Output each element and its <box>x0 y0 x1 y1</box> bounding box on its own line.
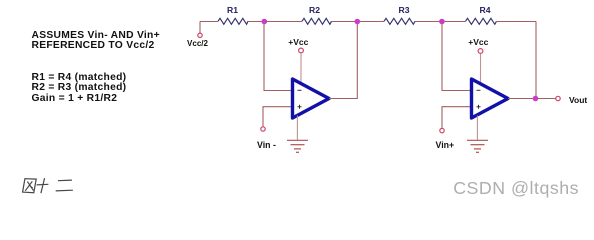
junction dot B <box>355 19 361 25</box>
junction dot D (output node) <box>533 96 539 102</box>
resistor R1 <box>218 5 248 24</box>
power terminal +Vcc (U2) <box>468 37 488 83</box>
resistor R3 <box>384 5 415 24</box>
svg-text:+Vcc: +Vcc <box>468 37 488 47</box>
svg-text:+Vcc: +Vcc <box>288 37 308 47</box>
resistor R4 <box>466 5 497 24</box>
op-amp U2 <box>472 79 509 118</box>
svg-text:R3: R3 <box>399 5 410 15</box>
terminal Vin+ <box>436 128 455 150</box>
power terminal +Vcc (U1) <box>288 37 308 84</box>
wire right corner down to output node <box>535 22 537 99</box>
svg-text:Vout: Vout <box>569 95 587 105</box>
caption 图十二 (Figure 12) drawn strokes <box>23 178 73 193</box>
wire junction C to op-amp U2 inverting input <box>442 22 472 91</box>
terminal Vcc/2 <box>187 22 208 49</box>
resistor R2 <box>302 5 332 24</box>
svg-text:Vcc/2: Vcc/2 <box>187 39 208 48</box>
svg-text:R2: R2 <box>309 5 320 15</box>
terminal Vout <box>556 95 588 105</box>
junction dot A <box>262 19 268 25</box>
op-amp U1 <box>293 79 330 118</box>
watermark <box>453 178 579 199</box>
ground (U2) <box>467 116 488 153</box>
wire top rail segment R4 to right corner <box>497 21 536 23</box>
wire top rail segment R3 to R4 <box>415 21 466 23</box>
junction dot C <box>439 19 445 25</box>
svg-text:R4: R4 <box>480 5 491 15</box>
wire top rail segment Vcc/2 to R1 <box>200 21 218 23</box>
wire junction A to op-amp U1 inverting input <box>264 22 293 91</box>
svg-text:R1: R1 <box>227 5 238 15</box>
svg-text:Vin+: Vin+ <box>436 140 455 150</box>
wire op-amp U1 output to junction B <box>329 22 357 99</box>
wire op-amp U2 non-inverting input to Vin+ stub <box>442 107 472 129</box>
ground (U1) <box>287 116 308 153</box>
wire top rail segment R2 to R3 <box>332 21 385 23</box>
note text block 2 <box>32 73 127 105</box>
svg-text:Vin -: Vin - <box>257 140 276 150</box>
wire op-amp U1 non-inverting input to Vin- stub <box>263 107 293 127</box>
terminal Vin- <box>257 127 276 150</box>
wire top rail segment R1 to R2 <box>248 21 302 23</box>
wire op-amp U2 output to Vout <box>508 98 556 100</box>
note text block 1 <box>32 31 160 52</box>
